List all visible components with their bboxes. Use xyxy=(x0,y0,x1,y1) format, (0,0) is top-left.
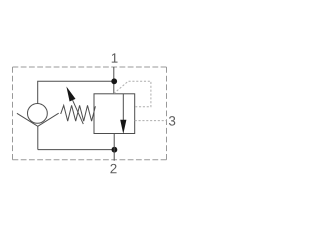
port 2 label xyxy=(110,164,116,173)
valve element box xyxy=(94,94,135,134)
check valve CV ball xyxy=(28,104,48,124)
wire: branch from port 1 to check valve xyxy=(38,81,114,103)
wire: check valve to bottom rail xyxy=(37,126,39,149)
drain line (dashed) to port 3 xyxy=(135,120,167,122)
valve flow path arrow (down) xyxy=(122,94,124,121)
node: junction dot on port 1 line xyxy=(111,78,117,84)
port 3 label xyxy=(169,116,175,125)
port 1 label xyxy=(112,53,118,62)
check valve CV seat (V lines) xyxy=(17,113,59,126)
node: junction dot on port 2 line xyxy=(112,147,118,153)
pilot line (dashed) from port 1 to spool end xyxy=(114,81,151,107)
envelope (dashed valve boundary) xyxy=(13,67,167,160)
wire: bottom rail to port 2 xyxy=(38,149,114,151)
spring (zigzag) xyxy=(61,105,96,121)
wire: port 1 stub into valve box xyxy=(113,67,115,94)
adjustment arrow across spring xyxy=(73,100,84,124)
wire: port 2 stub xyxy=(113,134,115,161)
